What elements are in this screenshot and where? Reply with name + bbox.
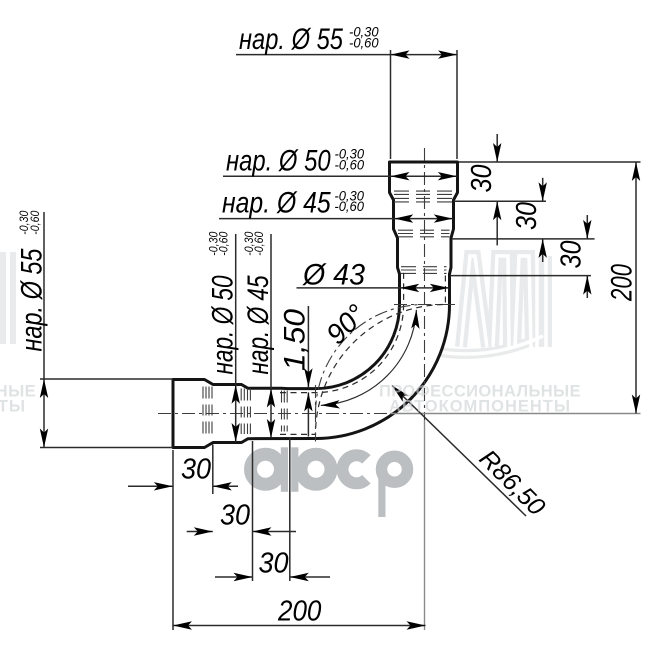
svg-text:нар. Ø 50: нар. Ø 50 bbox=[207, 275, 240, 374]
svg-text:Ø 43: Ø 43 bbox=[302, 259, 365, 292]
svg-text:30: 30 bbox=[556, 240, 588, 268]
svg-text:30: 30 bbox=[466, 164, 498, 192]
svg-text:1,50: 1,50 bbox=[279, 309, 312, 371]
svg-text:-0,60: -0,60 bbox=[28, 210, 42, 234]
svg-text:-0,60: -0,60 bbox=[334, 199, 364, 214]
svg-text:АВТОКОМПОНЕНТЫ: АВТОКОМПОНЕНТЫ bbox=[389, 398, 571, 416]
svg-text:-0,60: -0,60 bbox=[335, 158, 365, 173]
svg-text:-0,60: -0,60 bbox=[217, 231, 231, 255]
svg-text:200: 200 bbox=[606, 264, 639, 302]
svg-text:нар. Ø 45: нар. Ø 45 bbox=[222, 187, 331, 220]
svg-text:30: 30 bbox=[511, 202, 543, 230]
svg-text:нар. Ø 55: нар. Ø 55 bbox=[239, 23, 343, 56]
svg-text:нар. Ø 50: нар. Ø 50 bbox=[226, 145, 331, 178]
svg-text:30: 30 bbox=[181, 454, 211, 486]
svg-text:30: 30 bbox=[259, 548, 289, 580]
svg-text:АВТОКОМПОНЕНТЫ: АВТОКОМПОНЕНТЫ bbox=[0, 398, 26, 416]
svg-text:200: 200 bbox=[277, 596, 321, 628]
svg-text:30: 30 bbox=[220, 500, 250, 532]
svg-text:нар. Ø 45: нар. Ø 45 bbox=[242, 275, 275, 374]
svg-text:-0,60: -0,60 bbox=[349, 36, 379, 51]
svg-text:нар. Ø 55: нар. Ø 55 bbox=[16, 248, 49, 351]
svg-text:-0,60: -0,60 bbox=[252, 231, 266, 255]
